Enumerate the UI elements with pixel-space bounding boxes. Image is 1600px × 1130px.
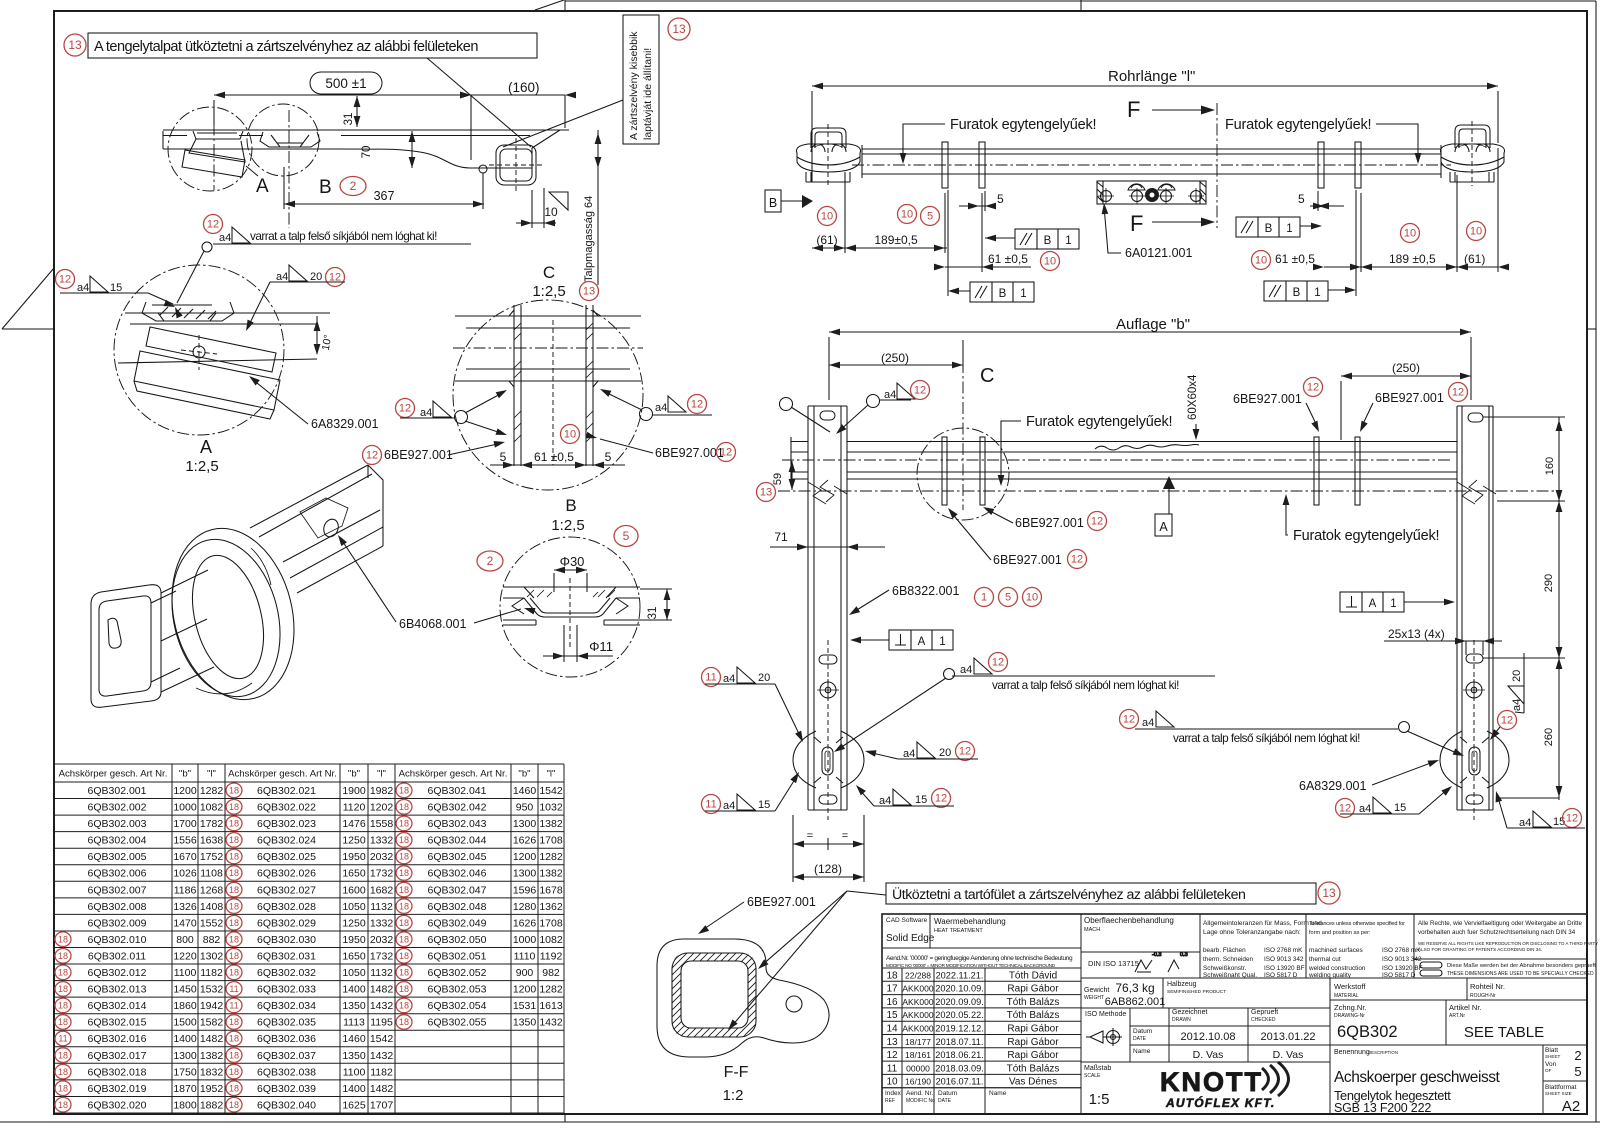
svg-text:B: B bbox=[769, 196, 777, 210]
svg-text:a4: a4 bbox=[884, 389, 896, 401]
svg-text:1120: 1120 bbox=[343, 802, 366, 814]
svg-text:60X60x4: 60X60x4 bbox=[1187, 374, 1199, 420]
svg-text:15: 15 bbox=[915, 794, 927, 806]
label 12 6BE927.001 iso/C bbox=[363, 446, 382, 465]
left arm v3 bbox=[808, 406, 847, 810]
svg-text:Gezeichnet: Gezeichnet bbox=[1172, 1009, 1207, 1016]
svg-text:AKK000: AKK000 bbox=[902, 1024, 933, 1034]
svg-text:a4: a4 bbox=[723, 673, 735, 685]
svg-text:MODIFIC NO '00000' = MINOR MOD: MODIFIC NO '00000' = MINOR MODIFICATION … bbox=[886, 963, 1056, 968]
svg-text:Werkstoff: Werkstoff bbox=[1334, 982, 1366, 991]
svg-text:17: 17 bbox=[886, 984, 898, 995]
svg-text:form and position as per:: form and position as per: bbox=[1309, 930, 1371, 936]
svg-text:18: 18 bbox=[399, 968, 409, 978]
svg-text:DRAWN: DRAWN bbox=[1172, 1017, 1191, 1023]
svg-text:"l": "l" bbox=[207, 769, 216, 780]
svg-text:1532: 1532 bbox=[200, 984, 224, 996]
svg-text:982: 982 bbox=[542, 967, 560, 979]
svg-text:ROUGH-Nr: ROUGH-Nr bbox=[1470, 993, 1496, 999]
svg-text:6BE927.001: 6BE927.001 bbox=[655, 446, 724, 460]
svg-text:Furatok egytengelyűek!: Furatok egytengelyűek! bbox=[1293, 528, 1439, 544]
svg-text:61 ±0,5: 61 ±0,5 bbox=[1275, 252, 1315, 266]
baseline 10deg bbox=[118, 359, 317, 363]
svg-text:6QB302.015: 6QB302.015 bbox=[88, 1017, 147, 1029]
svg-text:1: 1 bbox=[1065, 235, 1071, 247]
svg-text:1:2,5: 1:2,5 bbox=[185, 458, 218, 475]
svg-text:6QB302.053: 6QB302.053 bbox=[428, 984, 487, 996]
svg-text:MACH: MACH bbox=[1084, 927, 1100, 933]
svg-text:6QB302.047: 6QB302.047 bbox=[428, 884, 487, 896]
svg-text:5: 5 bbox=[605, 450, 612, 464]
detail circle B marker bbox=[247, 104, 319, 176]
svg-text:A tengelytalpat ütköztetni a z: A tengelytalpat ütköztetni a zártszelvén… bbox=[94, 39, 478, 55]
svg-text:18/161: 18/161 bbox=[905, 1050, 931, 1060]
svg-text:1332: 1332 bbox=[370, 917, 394, 929]
svg-text:6QB302.037: 6QB302.037 bbox=[257, 1050, 316, 1062]
svg-text:ISO 2768 mK: ISO 2768 mK bbox=[1382, 947, 1421, 954]
svg-text:18: 18 bbox=[399, 1017, 409, 1027]
svg-text:12: 12 bbox=[1452, 387, 1464, 399]
svg-text:Gewicht: Gewicht bbox=[1084, 987, 1109, 994]
svg-text:-0.3: -0.3 bbox=[1152, 952, 1161, 958]
svg-text:(250): (250) bbox=[1392, 361, 1420, 375]
left end bracket bbox=[796, 128, 860, 182]
perp frame A1 left bbox=[889, 630, 953, 650]
svg-text:A: A bbox=[1159, 520, 1168, 534]
svg-text:6QB302.043: 6QB302.043 bbox=[428, 818, 487, 830]
svg-text:a4: a4 bbox=[1359, 803, 1371, 815]
svg-text:1626: 1626 bbox=[513, 835, 537, 847]
plate pair left v2 bbox=[942, 142, 985, 188]
svg-text:(160): (160) bbox=[508, 80, 540, 95]
svg-text:1582: 1582 bbox=[200, 1017, 224, 1029]
svg-text:1000: 1000 bbox=[173, 802, 197, 814]
varrat note v3 #2 bbox=[1120, 710, 1139, 729]
svg-text:1326: 1326 bbox=[173, 901, 197, 913]
svg-text:1082: 1082 bbox=[539, 934, 563, 946]
svg-text:ISO 13920 BF: ISO 13920 BF bbox=[1382, 965, 1423, 972]
svg-text:18: 18 bbox=[58, 1050, 68, 1060]
detail C circle bbox=[453, 300, 643, 490]
svg-text:Zchng.Nr.: Zchng.Nr. bbox=[1334, 1003, 1367, 1012]
svg-text:18: 18 bbox=[229, 852, 239, 862]
svg-text:76,3 kg: 76,3 kg bbox=[1115, 981, 1154, 995]
svg-text:1558: 1558 bbox=[370, 818, 394, 830]
svg-text:6QB302.026: 6QB302.026 bbox=[257, 868, 316, 880]
svg-text:00000: 00000 bbox=[906, 1063, 930, 1073]
svg-text:1: 1 bbox=[1020, 288, 1026, 300]
svg-text:a4: a4 bbox=[879, 795, 891, 807]
svg-text:2: 2 bbox=[350, 179, 357, 193]
svg-text:31: 31 bbox=[343, 113, 355, 126]
svg-text:10: 10 bbox=[886, 1077, 898, 1088]
svg-text:12: 12 bbox=[1566, 813, 1578, 825]
svg-text:1600: 1600 bbox=[342, 884, 366, 896]
svg-text:1400: 1400 bbox=[342, 984, 366, 996]
svg-text:ISO 5817 D: ISO 5817 D bbox=[1264, 972, 1298, 979]
svg-text:F: F bbox=[1130, 211, 1143, 236]
svg-text:6QB302.029: 6QB302.029 bbox=[257, 917, 316, 929]
svg-text:18: 18 bbox=[229, 1083, 239, 1093]
svg-text:1050: 1050 bbox=[342, 967, 366, 979]
svg-text:(128): (128) bbox=[814, 862, 842, 876]
svg-text:Waermebehandlung: Waermebehandlung bbox=[934, 917, 1006, 926]
svg-text:Alle Rechte, wie Vervielfaelti: Alle Rechte, wie Vervielfaeltigung oder … bbox=[1418, 920, 1583, 927]
svg-text:12: 12 bbox=[59, 274, 71, 286]
svg-text:6QB302.007: 6QB302.007 bbox=[88, 884, 147, 896]
svg-text:1476: 1476 bbox=[342, 818, 366, 830]
svg-text:B: B bbox=[999, 288, 1007, 300]
svg-text:2013.01.22: 2013.01.22 bbox=[1260, 1031, 1315, 1043]
svg-text:12: 12 bbox=[207, 219, 219, 231]
svg-text:18: 18 bbox=[229, 934, 239, 944]
svg-text:Rapi Gábor: Rapi Gábor bbox=[1007, 1024, 1059, 1035]
svg-text:"b": "b" bbox=[348, 769, 360, 780]
svg-text:ISO 5817 D: ISO 5817 D bbox=[1382, 972, 1416, 979]
svg-text:1482: 1482 bbox=[200, 1033, 224, 1045]
svg-text:1556: 1556 bbox=[173, 835, 197, 847]
svg-text:12: 12 bbox=[1339, 803, 1351, 815]
svg-text:12: 12 bbox=[992, 657, 1004, 669]
svg-text:12: 12 bbox=[886, 1050, 898, 1061]
svg-text:20: 20 bbox=[939, 747, 951, 759]
svg-text:Maßstab: Maßstab bbox=[1084, 1065, 1111, 1072]
svg-text:950: 950 bbox=[516, 802, 534, 814]
svg-text:18: 18 bbox=[58, 1017, 68, 1027]
svg-text:1626: 1626 bbox=[513, 917, 537, 929]
detail B circle bbox=[500, 537, 640, 677]
svg-text:1670: 1670 bbox=[173, 851, 197, 863]
svg-text:D. Vas: D. Vas bbox=[1273, 1049, 1304, 1061]
svg-text:1625: 1625 bbox=[342, 1099, 366, 1111]
svg-text:Allgemeintoleranzen für Mass,: Allgemeintoleranzen für Mass, Form und bbox=[1203, 920, 1322, 927]
F-F tube walls hatched bbox=[672, 953, 756, 1037]
svg-text:12: 12 bbox=[959, 746, 971, 758]
svg-text:"b": "b" bbox=[518, 769, 530, 780]
svg-text:Tóth Balázs: Tóth Balázs bbox=[1007, 1063, 1060, 1074]
section flag B bbox=[765, 190, 781, 212]
svg-text:Talpmagasság 64: Talpmagasság 64 bbox=[583, 196, 595, 282]
svg-text:Datum: Datum bbox=[1133, 1028, 1152, 1035]
svg-text:1860: 1860 bbox=[173, 1000, 197, 1012]
svg-text:Φ11: Φ11 bbox=[589, 639, 613, 654]
svg-text:6QB302.006: 6QB302.006 bbox=[88, 868, 147, 880]
svg-text:WE RESERVE ALL RIGHTS LIKE REP: WE RESERVE ALL RIGHTS LIKE REPRODUCTION … bbox=[1418, 941, 1598, 946]
svg-text:Geprueft: Geprueft bbox=[1251, 1009, 1278, 1016]
svg-text:a4: a4 bbox=[723, 800, 735, 812]
svg-text:18: 18 bbox=[399, 852, 409, 862]
svg-text:18: 18 bbox=[399, 868, 409, 878]
svg-text:10: 10 bbox=[1044, 256, 1056, 268]
svg-text:18: 18 bbox=[58, 984, 68, 994]
svg-text:6QB302.021: 6QB302.021 bbox=[257, 785, 316, 797]
pad hat 2 (detail B area) bbox=[260, 132, 320, 147]
svg-text:B: B bbox=[565, 496, 576, 515]
svg-text:11: 11 bbox=[887, 1063, 898, 1074]
middle bracket 6A0121.001 bbox=[1097, 181, 1206, 204]
svg-text:16: 16 bbox=[886, 997, 898, 1008]
svg-text:machined surfaces: machined surfaces bbox=[1309, 947, 1363, 954]
svg-text:18: 18 bbox=[229, 1034, 239, 1044]
svg-text:6A8329.001: 6A8329.001 bbox=[1299, 779, 1366, 793]
svg-text:6QB302.044: 6QB302.044 bbox=[428, 835, 487, 847]
svg-text:Furatok egytengelyűek!: Furatok egytengelyűek! bbox=[1225, 117, 1371, 133]
svg-text:Rohrlänge "l": Rohrlänge "l" bbox=[1108, 68, 1195, 85]
svg-text:6QB302.034: 6QB302.034 bbox=[257, 1000, 316, 1012]
svg-text:A: A bbox=[256, 176, 269, 197]
svg-text:1:2,5: 1:2,5 bbox=[532, 283, 565, 300]
svg-text:6QB302.013: 6QB302.013 bbox=[88, 984, 147, 996]
svg-text:1282: 1282 bbox=[200, 785, 224, 797]
svg-text:1220: 1220 bbox=[173, 951, 197, 963]
svg-text:6B8322.001: 6B8322.001 bbox=[892, 584, 959, 598]
svg-text:18: 18 bbox=[229, 1067, 239, 1077]
svg-text:1300: 1300 bbox=[513, 868, 537, 880]
svg-text:6QB302.014: 6QB302.014 bbox=[88, 1000, 147, 1012]
svg-text:a4: a4 bbox=[655, 402, 667, 414]
svg-text:Halbzeug: Halbzeug bbox=[1167, 981, 1197, 988]
svg-text:1182: 1182 bbox=[370, 1066, 393, 1078]
svg-text:1282: 1282 bbox=[539, 851, 563, 863]
section A flag bbox=[1163, 476, 1175, 489]
svg-text:13: 13 bbox=[583, 286, 595, 298]
svg-text:ALSO FOR GRANTING OF PATENTS A: ALSO FOR GRANTING OF PATENTS ACCORDING D… bbox=[1418, 947, 1542, 952]
svg-text:1195: 1195 bbox=[370, 1017, 393, 1029]
svg-text:F-F: F-F bbox=[724, 1064, 749, 1081]
svg-text:18: 18 bbox=[229, 819, 239, 829]
right arm v3 bbox=[1457, 406, 1493, 810]
svg-text:1108: 1108 bbox=[200, 868, 223, 880]
svg-text:18: 18 bbox=[58, 951, 68, 961]
svg-text:Achskoerper geschweisst: Achskoerper geschweisst bbox=[1334, 1069, 1501, 1086]
svg-text:18: 18 bbox=[399, 819, 409, 829]
svg-text:a4: a4 bbox=[1519, 817, 1531, 829]
svg-text:12: 12 bbox=[1091, 516, 1103, 528]
tube view2 bbox=[862, 145, 1441, 178]
svg-text:1732: 1732 bbox=[370, 951, 394, 963]
svg-text:6A0121.001: 6A0121.001 bbox=[1125, 246, 1192, 260]
svg-text:DIN ISO 13715: DIN ISO 13715 bbox=[1088, 959, 1139, 968]
svg-text:6A8329.001: 6A8329.001 bbox=[311, 417, 378, 431]
svg-text:A: A bbox=[200, 437, 212, 457]
svg-text:18: 18 bbox=[399, 835, 409, 845]
title block bbox=[882, 914, 1587, 1114]
svg-text:1708: 1708 bbox=[539, 835, 563, 847]
svg-text:1000: 1000 bbox=[513, 934, 537, 946]
svg-text:A: A bbox=[918, 636, 926, 648]
perp frame A1 right bbox=[1340, 592, 1404, 612]
svg-text:6QB302.018: 6QB302.018 bbox=[88, 1066, 147, 1078]
svg-text:5: 5 bbox=[1574, 1064, 1581, 1079]
svg-text:Rapi Gábor: Rapi Gábor bbox=[1007, 984, 1059, 995]
svg-text:1050: 1050 bbox=[342, 901, 366, 913]
svg-text:18: 18 bbox=[58, 968, 68, 978]
svg-text:2022.11.21.: 2022.11.21. bbox=[936, 970, 984, 980]
svg-text:12: 12 bbox=[914, 385, 926, 397]
svg-text:Ütköztetni a tartófület a zárt: Ütköztetni a tartófület a zártszelvényhe… bbox=[892, 885, 1245, 903]
svg-text:1500: 1500 bbox=[173, 1017, 197, 1029]
svg-text:DESCRIPTION: DESCRIPTION bbox=[1368, 1050, 1398, 1055]
F section cut bbox=[1216, 103, 1218, 228]
svg-text:11: 11 bbox=[229, 984, 238, 994]
svg-text:Rohteil Nr.: Rohteil Nr. bbox=[1470, 982, 1505, 991]
svg-text:18: 18 bbox=[886, 970, 898, 981]
svg-text:6QB302.027: 6QB302.027 bbox=[257, 884, 316, 896]
svg-text:1350: 1350 bbox=[342, 1050, 366, 1062]
svg-text:2: 2 bbox=[487, 554, 494, 568]
svg-text:18: 18 bbox=[399, 1001, 409, 1011]
svg-text:varrat a talp felső síkjából n: varrat a talp felső síkjából nem lóghat … bbox=[250, 229, 437, 243]
detail circle A marker bbox=[168, 107, 252, 191]
svg-text:1302: 1302 bbox=[200, 951, 224, 963]
svg-text:2018.07.11.: 2018.07.11. bbox=[936, 1037, 984, 1047]
svg-text:18: 18 bbox=[399, 951, 409, 961]
svg-text:6QB302.038: 6QB302.038 bbox=[257, 1066, 316, 1078]
svg-text:18: 18 bbox=[229, 901, 239, 911]
svg-text:AKK000: AKK000 bbox=[902, 984, 933, 994]
svg-text:CHECKED: CHECKED bbox=[1251, 1017, 1276, 1023]
svg-text:6B4068.001: 6B4068.001 bbox=[399, 617, 466, 631]
svg-text:1482: 1482 bbox=[370, 1083, 394, 1095]
svg-text:10: 10 bbox=[564, 429, 576, 441]
svg-text:1362: 1362 bbox=[539, 901, 563, 913]
svg-text:1650: 1650 bbox=[342, 951, 366, 963]
svg-text:6QB302.022: 6QB302.022 bbox=[257, 802, 316, 814]
note box 13: A tengelytalpat bbox=[64, 34, 86, 56]
svg-text:10: 10 bbox=[544, 205, 558, 219]
svg-text:1531: 1531 bbox=[513, 1000, 537, 1012]
svg-text:6QB302.039: 6QB302.039 bbox=[257, 1083, 316, 1095]
svg-text:290: 290 bbox=[1543, 574, 1555, 592]
svg-text:20: 20 bbox=[1511, 670, 1523, 682]
svg-text:OF: OF bbox=[1545, 1068, 1552, 1073]
Rohrlaenge dim bbox=[812, 85, 1498, 87]
svg-text:ISO 13920 BF: ISO 13920 BF bbox=[1264, 965, 1305, 972]
svg-text:10: 10 bbox=[1404, 228, 1416, 240]
svg-text:Index.: Index. bbox=[885, 1090, 903, 1097]
svg-text:SEE TABLE: SEE TABLE bbox=[1464, 1024, 1544, 1041]
svg-text:Furatok egytengelyűek!: Furatok egytengelyűek! bbox=[950, 117, 1096, 133]
svg-text:a4: a4 bbox=[960, 664, 972, 676]
svg-text:6QB302.040: 6QB302.040 bbox=[257, 1099, 316, 1111]
svg-text:Tóth Balázs: Tóth Balázs bbox=[1007, 997, 1060, 1008]
arm slot низ bbox=[819, 655, 837, 664]
svg-text:Artikel Nr.: Artikel Nr. bbox=[1449, 1003, 1482, 1012]
svg-text:1638: 1638 bbox=[200, 835, 224, 847]
svg-text:18: 18 bbox=[399, 786, 409, 796]
svg-text:THESE DIMENSIONS ARE USED TO B: THESE DIMENSIONS ARE USED TO BE SPECIALL… bbox=[1447, 971, 1594, 977]
svg-text:1552: 1552 bbox=[200, 917, 224, 929]
svg-text:367: 367 bbox=[374, 189, 395, 203]
svg-text:1382: 1382 bbox=[539, 868, 563, 880]
svg-text:2020.05.22.: 2020.05.22. bbox=[935, 1010, 984, 1020]
svg-text:Aend. Nr.: Aend. Nr. bbox=[906, 1090, 933, 1097]
svg-text:Rapi Gábor: Rapi Gábor bbox=[1007, 1037, 1059, 1048]
svg-text:6QB302.017: 6QB302.017 bbox=[88, 1050, 147, 1062]
svg-text:1542: 1542 bbox=[539, 785, 563, 797]
svg-text:1300: 1300 bbox=[513, 818, 537, 830]
svg-text:1950: 1950 bbox=[342, 851, 366, 863]
svg-text:6BE927.001: 6BE927.001 bbox=[384, 448, 453, 462]
svg-text:1132: 1132 bbox=[370, 901, 393, 913]
svg-text:2018.03.09.: 2018.03.09. bbox=[935, 1063, 984, 1073]
svg-text:1200: 1200 bbox=[513, 984, 537, 996]
axle beam side view bbox=[163, 130, 569, 210]
svg-text:6QB302.028: 6QB302.028 bbox=[257, 901, 316, 913]
svg-text:18: 18 bbox=[58, 934, 68, 944]
svg-text:18: 18 bbox=[229, 951, 239, 961]
svg-text:1542: 1542 bbox=[370, 1033, 394, 1045]
svg-text:DRAWING-Nr: DRAWING-Nr bbox=[1334, 1013, 1365, 1019]
svg-text:18/177: 18/177 bbox=[905, 1037, 931, 1047]
leader lines to square tube bbox=[427, 58, 531, 147]
svg-text:A zártszelvény kisebbik: A zártszelvény kisebbik bbox=[628, 31, 640, 140]
svg-text:1250: 1250 bbox=[342, 835, 366, 847]
svg-text:CAD Software: CAD Software bbox=[886, 917, 928, 924]
svg-text:AKK000: AKK000 bbox=[902, 997, 933, 1007]
svg-text:SGB 13 F200 222: SGB 13 F200 222 bbox=[1334, 1101, 1431, 1115]
svg-text:ISO 9013 342: ISO 9013 342 bbox=[1264, 956, 1304, 963]
svg-text:6QB302.001: 6QB302.001 bbox=[88, 785, 147, 797]
svg-text:a4: a4 bbox=[1511, 699, 1523, 711]
svg-text:bearb. Flächen: bearb. Flächen bbox=[1203, 947, 1246, 954]
svg-text:59: 59 bbox=[772, 473, 784, 485]
svg-text:1678: 1678 bbox=[539, 884, 563, 896]
svg-text:1192: 1192 bbox=[540, 951, 563, 963]
svg-text:Tóth Dávid: Tóth Dávid bbox=[1009, 970, 1057, 981]
svg-text:10: 10 bbox=[1026, 592, 1038, 604]
svg-text:1882: 1882 bbox=[200, 1099, 224, 1111]
svg-text:5: 5 bbox=[1005, 592, 1011, 604]
svg-text:0.3: 0.3 bbox=[1180, 952, 1188, 958]
svg-text:900: 900 bbox=[516, 967, 534, 979]
svg-text:1280: 1280 bbox=[513, 901, 537, 913]
svg-text:18: 18 bbox=[399, 918, 409, 928]
svg-text:a4: a4 bbox=[276, 271, 288, 283]
svg-text:18: 18 bbox=[229, 885, 239, 895]
svg-text:25x13 (4x): 25x13 (4x) bbox=[1388, 627, 1445, 641]
svg-text:1732: 1732 bbox=[370, 868, 394, 880]
svg-text:6BE927.001: 6BE927.001 bbox=[993, 553, 1062, 567]
svg-text:C: C bbox=[543, 263, 555, 282]
svg-text:6BE927.001: 6BE927.001 bbox=[1233, 392, 1302, 406]
svg-text:a4: a4 bbox=[1142, 717, 1154, 729]
svg-text:18: 18 bbox=[229, 868, 239, 878]
svg-text:1100: 1100 bbox=[174, 967, 197, 979]
svg-text:1750: 1750 bbox=[173, 1066, 197, 1078]
svg-text:a4: a4 bbox=[219, 232, 231, 244]
svg-text:1: 1 bbox=[1314, 287, 1320, 299]
svg-text:1082: 1082 bbox=[200, 802, 224, 814]
svg-text:189 ±0,5: 189 ±0,5 bbox=[1389, 252, 1436, 266]
svg-text:6QB302.005: 6QB302.005 bbox=[88, 851, 147, 863]
svg-text:18: 18 bbox=[58, 1083, 68, 1093]
svg-text:10: 10 bbox=[901, 209, 913, 221]
svg-text:20: 20 bbox=[310, 271, 322, 283]
beam v3 bbox=[791, 437, 1457, 483]
svg-text:A: A bbox=[1369, 598, 1377, 610]
svg-text:18: 18 bbox=[399, 885, 409, 895]
svg-text:5: 5 bbox=[623, 529, 630, 543]
svg-text:D. Vas: D. Vas bbox=[1193, 1049, 1224, 1061]
svg-text:6QB302.025: 6QB302.025 bbox=[257, 851, 316, 863]
svg-text:1460: 1460 bbox=[342, 1033, 366, 1045]
svg-text:6QB302.004: 6QB302.004 bbox=[88, 835, 147, 847]
svg-text:1:2,5: 1:2,5 bbox=[551, 517, 584, 534]
svg-text:varrat a talp felső síkjából n: varrat a talp felső síkjából nem lóghat … bbox=[992, 678, 1179, 692]
svg-text:18: 18 bbox=[229, 1100, 239, 1110]
svg-text:18: 18 bbox=[399, 901, 409, 911]
